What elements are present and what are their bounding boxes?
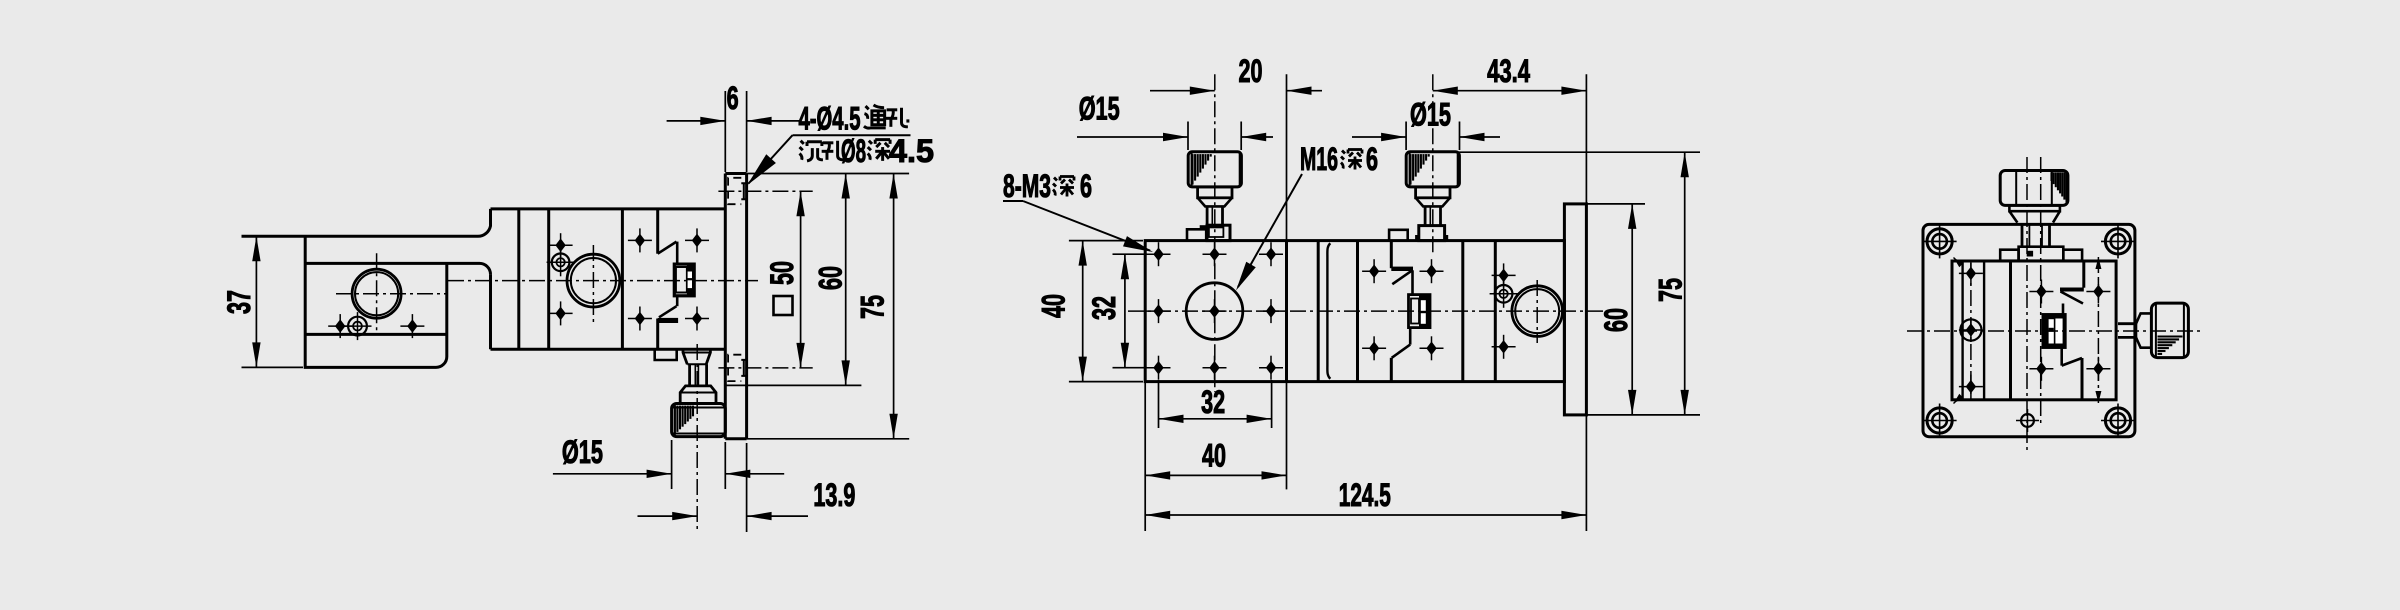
side knob taper flange	[2136, 313, 2152, 347]
upper block M3 hole bottom-left	[635, 312, 645, 326]
dim 75 bottom extension line	[747, 438, 910, 440]
knob B1 upper flange	[680, 386, 716, 404]
lower block bore centerlines	[336, 293, 446, 295]
knob knurl hatching	[1409, 154, 1411, 185]
lower block bore circle	[352, 269, 401, 318]
middle flexure top claw	[1390, 241, 1393, 269]
svg-text:6: 6	[727, 80, 739, 116]
M3 hole at 1271,311	[1266, 304, 1276, 318]
body outline	[1145, 241, 1564, 382]
corner counterbored hole TL	[1927, 229, 1952, 254]
body split line 2	[1317, 241, 1320, 382]
right view flexure top claw	[2082, 261, 2085, 288]
corner counterbored hole BL	[1927, 408, 1952, 433]
flexure bottom bar	[658, 318, 678, 323]
knob knurled head at 1432.8	[1406, 152, 1459, 187]
svg-text:Ø15: Ø15	[562, 434, 603, 470]
mounting plate square	[1923, 224, 2135, 436]
top knob base center	[2019, 247, 2064, 261]
view vertical centerline B (knob axis)	[2040, 157, 2042, 426]
dim O15 line with outside arrows	[553, 473, 672, 475]
M3 hole at 1271,367	[1266, 361, 1276, 375]
M3 hole at 1158.5,311	[1153, 304, 1163, 318]
side knob knurl hatching	[2158, 335, 2183, 337]
svg-text:40: 40	[1035, 294, 1071, 318]
svg-text:32: 32	[1086, 296, 1122, 320]
dim 40 bottom line	[1145, 474, 1286, 476]
body face vertical line 2	[1983, 261, 1985, 400]
knob stem	[1425, 206, 1440, 225]
side knob stem	[2118, 324, 2134, 338]
M3 hole at 1214.5,367	[1209, 361, 1219, 375]
lower block internal top line / arm bottom line	[305, 263, 490, 274]
dim 32 left line	[1124, 254, 1126, 368]
upper block vertical split lines	[517, 209, 520, 349]
dim 60 line with arrows	[845, 174, 847, 386]
flexure top claw	[656, 209, 659, 254]
knob stem	[1207, 206, 1222, 225]
right section diamond top	[1498, 269, 1508, 283]
upper block diamond below side hole	[555, 307, 565, 321]
M3 hole at 1158.5,367	[1153, 361, 1163, 375]
svg-text:43.4: 43.4	[1487, 53, 1530, 89]
upper block bottom edge	[491, 348, 727, 351]
body split line 5	[1494, 241, 1497, 382]
knob B1 knurled head	[672, 404, 726, 437]
label M16 leader	[1238, 174, 1302, 287]
svg-text:20: 20	[1239, 53, 1263, 89]
svg-text:4-Ø4.5: 4-Ø4.5	[799, 101, 861, 137]
view horizontal centerline	[1907, 330, 2201, 332]
upper block side hole with cross	[552, 253, 570, 271]
cross diamond hole top-right	[2093, 285, 2103, 299]
view vertical centerline A	[2026, 157, 2028, 450]
knob B1 stem	[690, 364, 707, 386]
svg-text:Ø8: Ø8	[841, 133, 866, 169]
knob knurl face lines	[1191, 152, 1193, 187]
dim 124.5 extensions	[1144, 382, 1146, 531]
dim 40 left line	[1082, 241, 1084, 382]
right view nut block	[2043, 314, 2066, 347]
upper block left edge lower part	[489, 274, 492, 349]
lower stage block outline	[305, 236, 447, 367]
knob K2 base block	[1419, 226, 1445, 241]
counterbore bottom slot hidden lines	[728, 355, 741, 381]
dim O15 knob K2 line	[1352, 136, 1406, 138]
M16 center bore	[1186, 283, 1243, 340]
counterbore top slot centerline	[718, 190, 812, 192]
top knob taper	[2009, 211, 2059, 222]
knob K2 base feet	[1416, 236, 1447, 240]
knob K1 base notch	[1187, 229, 1206, 240]
corner counterbored hole BR	[2105, 408, 2130, 433]
svg-text:50: 50	[764, 261, 800, 285]
lower block side hole with cross	[348, 317, 367, 336]
dim 32 bottom line	[1159, 418, 1272, 420]
top knob stem	[2022, 224, 2050, 246]
top knob knurl hatching	[2050, 172, 2052, 181]
dim 13.9 line with outside arrows	[638, 515, 698, 517]
lower block screw hole diamond right	[407, 319, 417, 333]
top knob base dark insert	[2027, 251, 2033, 257]
corner counterbored hole TR	[2105, 229, 2130, 254]
note text line2: counterbore O8 depth 4.5	[800, 141, 823, 161]
upper block M3 hole top-left	[635, 234, 645, 248]
dim 6 line with outside arrows	[667, 120, 726, 122]
cross diamond hole top-left	[2036, 285, 2046, 299]
dim 124.5 line	[1145, 514, 1586, 516]
middle flexure bottom claw	[1390, 358, 1393, 382]
dim 75 right bottom extension	[1645, 414, 1700, 416]
side knob knurl face lines	[2155, 303, 2157, 358]
knob K2 axis centerline	[1432, 74, 1434, 253]
body horizontal centerline	[1128, 310, 1610, 312]
svg-text:6: 6	[1080, 168, 1092, 204]
M3 hole at 1214.5,311	[1209, 304, 1219, 318]
left column diamond top	[1966, 267, 1976, 281]
leaf spring curve	[1327, 243, 1330, 379]
dim 60 bottom extension line	[725, 384, 861, 386]
dim O15 knob K2 extensions	[1405, 122, 1407, 151]
corner mini arrow bottom-left	[1954, 394, 1964, 404]
right section hole with cross	[1495, 285, 1513, 303]
dim 40 bottom extension	[1286, 382, 1288, 490]
dim 20 extension (platform edge)	[1286, 74, 1288, 240]
svg-text:32: 32	[1201, 384, 1225, 420]
knob taper	[1416, 198, 1450, 207]
counterbore top slot hidden lines	[728, 178, 741, 204]
cross diamond hole bottom-left	[2036, 362, 2046, 376]
side bore vertical centerline	[1536, 280, 1538, 343]
svg-text:124.5: 124.5	[1339, 477, 1391, 513]
knob K1 base block	[1207, 225, 1230, 240]
upper block diamond above side hole	[555, 238, 565, 252]
svg-text:37: 37	[221, 290, 257, 314]
body face vertical line 3	[2009, 261, 2012, 400]
M3 hole at 1271,254	[1266, 247, 1276, 261]
svg-text:Ø15: Ø15	[1079, 90, 1120, 126]
side knob knurled head	[2151, 303, 2188, 358]
upper block bore vertical centerline	[592, 245, 594, 322]
flexure bottom claw	[656, 319, 659, 350]
mounting plate (middle view)	[1564, 204, 1586, 415]
dim 32 bottom extensions	[1158, 380, 1160, 428]
right view flexure bottom claw	[2081, 358, 2084, 400]
top knob base right rect	[2063, 250, 2082, 261]
bottom tab under upper block	[655, 349, 677, 360]
body split line 3	[1356, 241, 1359, 382]
label 8-M3 leader	[1003, 200, 1023, 202]
dim 75 line with arrows	[893, 174, 895, 439]
dim 60 right line	[1631, 204, 1633, 415]
knob B1 axis centerline	[696, 344, 698, 531]
svg-text:4.5: 4.5	[889, 133, 934, 169]
left column diamond bottom	[1966, 380, 1976, 394]
dim 43.4 extension	[1585, 74, 1587, 204]
top knob base left rect	[2000, 250, 2018, 261]
knob B1 mounting tab	[683, 348, 710, 364]
leader 4-x04.5 counterbore note	[793, 134, 911, 136]
lower block internal line	[305, 333, 447, 336]
right section side bore double circle	[1512, 286, 1563, 337]
top knob knurled head	[2000, 171, 2068, 206]
svg-text:13.9: 13.9	[813, 477, 855, 513]
knob flange	[1416, 187, 1450, 198]
dim 75 right top extension	[1457, 151, 1700, 153]
dim 43.4 line	[1433, 90, 1587, 92]
dim square-50 line with arrows	[800, 191, 802, 368]
dim square-50 text	[774, 296, 793, 315]
dim 6 extension lines	[724, 91, 726, 172]
svg-text:40: 40	[1202, 438, 1226, 474]
svg-text:60: 60	[813, 266, 849, 290]
lower block screw hole diamond left	[335, 319, 345, 333]
svg-text:M16: M16	[1300, 141, 1338, 177]
upper block M3 hole bottom-right	[692, 312, 702, 326]
svg-text:6: 6	[1366, 141, 1378, 177]
right hole column centerline with arrows	[2097, 257, 2099, 403]
body face vertical line 1	[1961, 261, 1963, 400]
M3 hole at 1214.5,254	[1209, 247, 1219, 261]
counterbore bottom slot centerline	[718, 367, 812, 369]
left column circled diamond center	[1960, 319, 1981, 340]
dim 32 left extensions	[1113, 253, 1148, 255]
leadscrew nut block	[674, 264, 694, 296]
arm top edge	[242, 209, 491, 236]
upper block M3 hole top-right	[692, 234, 702, 248]
platform edge line	[1285, 241, 1288, 382]
M3 holes second section	[1369, 264, 1379, 278]
svg-text:60: 60	[1598, 308, 1634, 332]
stage body front face	[1952, 261, 2116, 400]
upper block body horizontal centerline	[448, 280, 758, 282]
body split line 4	[1461, 241, 1464, 382]
middle leadscrew nut block	[1409, 295, 1431, 328]
dim O15 knob K1 line	[1077, 136, 1188, 138]
dim 37 extension lines	[242, 235, 304, 237]
dim 75 top extension line	[747, 173, 910, 175]
corner mini arrow top-left	[1954, 258, 1964, 268]
dim 75 right line	[1684, 152, 1686, 415]
dim 40 left extensions	[1069, 240, 1143, 242]
svg-text:Ø15: Ø15	[1410, 97, 1451, 133]
cross diamond hole bottom-right	[2093, 362, 2103, 376]
svg-text:8-M3: 8-M3	[1003, 168, 1051, 204]
knob K1 base dark insert	[1200, 225, 1207, 230]
knob knurl face lines	[1409, 152, 1411, 187]
knob flange	[1198, 187, 1232, 198]
left hole column centerline	[1970, 263, 1972, 397]
knob K1 axis centerline	[1214, 74, 1216, 392]
knob taper	[1198, 198, 1232, 207]
top notch step	[1389, 230, 1408, 241]
upper block top edge	[491, 207, 727, 210]
svg-text:75: 75	[1653, 278, 1689, 302]
M3 hole at 1158.5,254	[1153, 247, 1163, 261]
knob knurl hatching	[1191, 154, 1193, 185]
dim O15 extension lines below knob	[671, 440, 673, 489]
dim 37 line with arrows	[255, 236, 257, 367]
dim 13.9 extension line right	[746, 443, 748, 532]
top knob flange	[2009, 205, 2059, 211]
dim 60 right extensions	[1586, 203, 1645, 205]
knob knurled head at 1214.8	[1188, 152, 1241, 187]
bottom center hole	[2021, 414, 2034, 427]
dim 20 line	[1150, 90, 1215, 92]
upper block main bore double circle	[567, 254, 620, 307]
mounting plate (left view)	[724, 174, 727, 439]
svg-text:75: 75	[855, 295, 891, 319]
dim O15 knob K1 extensions	[1187, 122, 1189, 151]
knob B1 knurl hatching	[674, 406, 676, 435]
right section diamond bottom	[1498, 340, 1508, 354]
